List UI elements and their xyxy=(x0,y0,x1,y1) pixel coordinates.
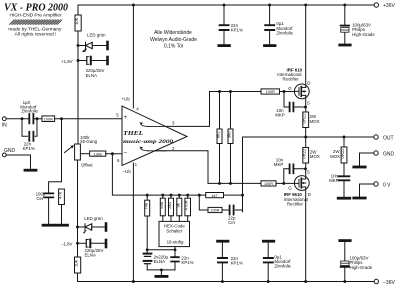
svg-text:1: 1 xyxy=(135,162,138,167)
wire 100R fb branch xyxy=(199,195,242,210)
wire op-amp out 2 to lower gate xyxy=(148,151,261,184)
svg-text:MOX: MOX xyxy=(310,154,320,159)
node hex ground tap xyxy=(160,268,163,271)
ground lower LED (vertical bar) xyxy=(105,224,108,231)
decorative hatch band xyxy=(10,20,63,25)
svg-text:D: D xyxy=(308,192,311,197)
svg-text:music-amp 2000: music-amp 2000 xyxy=(123,139,173,145)
node HEX bottom xyxy=(174,248,177,251)
node bias R2 bottom xyxy=(229,182,232,185)
wire feedback rail from OUT xyxy=(242,137,244,212)
node lower gate xyxy=(282,182,285,185)
svg-text:+: + xyxy=(124,115,128,121)
wire LED gruen upper branch xyxy=(78,45,107,47)
wire Q1 source down xyxy=(305,95,307,112)
svg-text:Welwyn Audio-Grade: Welwyn Audio-Grade xyxy=(150,37,197,43)
svg-text:D: D xyxy=(307,81,310,86)
svg-text:10k: 10k xyxy=(74,17,79,25)
node 22n bottom rail xyxy=(221,280,224,283)
capacitor 1u0 Mundorf Zinnfolie xyxy=(29,114,33,123)
node input cap right xyxy=(36,117,39,120)
wire input line to pin 5 xyxy=(6,118,122,120)
resistor 100R lower gate xyxy=(261,181,276,186)
svg-text:+Ub: +Ub xyxy=(122,96,131,101)
node 100u top rail xyxy=(343,4,346,7)
svg-text:−Ub: −Ub xyxy=(123,169,132,174)
wire upper gate segment xyxy=(280,91,295,93)
wire top +36V rail xyxy=(78,4,374,6)
svg-text:All rights reserved !: All rights reserved ! xyxy=(15,31,57,36)
terminal +36V xyxy=(374,3,378,7)
node bias R2 top xyxy=(229,90,232,93)
ground lower ELNA (vertical bar) xyxy=(105,240,108,247)
ground 22n top xyxy=(219,44,230,47)
svg-text:MKP: MKP xyxy=(275,113,285,118)
svg-text:130k: 130k xyxy=(94,152,102,156)
wire inverting input feedback bus xyxy=(112,154,199,195)
potentiometer wiper arrow xyxy=(65,146,74,153)
svg-text:Offset: Offset xyxy=(81,162,93,167)
node ELNA top xyxy=(146,248,149,251)
resistor gain R5 xyxy=(187,195,189,198)
wire OUT to Q2 source resistor xyxy=(305,137,307,148)
svg-text:2k4: 2k4 xyxy=(167,201,172,208)
capacitor 100u/63V Philips top xyxy=(344,5,346,43)
resistor gain R2 xyxy=(162,195,164,198)
svg-text:+1,8V: +1,8V xyxy=(61,59,73,64)
ground hex network xyxy=(156,275,167,278)
svg-text:GND: GND xyxy=(383,151,395,157)
node OUT zobel xyxy=(343,136,346,139)
wire upper 10n MKP xyxy=(284,92,306,108)
svg-text:100R: 100R xyxy=(264,182,273,186)
node bias R1 bottom xyxy=(218,182,221,185)
svg-text:0R22: 0R22 xyxy=(302,113,307,124)
node bus R188 xyxy=(186,194,189,197)
ground upper ELNA (vertical bar) xyxy=(106,57,109,64)
wire electrolytic +1.8V branch xyxy=(78,60,107,62)
wire bottom -36V rail xyxy=(78,281,374,283)
capacitor 0u1 Mundorf bottom xyxy=(263,240,273,243)
wire -Ub supply xyxy=(132,163,134,282)
svg-text:Rectifier: Rectifier xyxy=(287,201,304,206)
wire LED gruen lower branch xyxy=(78,226,106,228)
svg-text:0 V: 0 V xyxy=(383,182,391,188)
resistor 100R input xyxy=(42,116,55,122)
svg-text:0,1% Tol: 0,1% Tol xyxy=(164,44,183,50)
wire output 3 inside triangle xyxy=(148,125,167,127)
node bus R179 xyxy=(178,194,181,197)
ground zobel xyxy=(338,197,350,200)
svg-text:ELNA: ELNA xyxy=(154,259,166,264)
resistor 0R22 2W MOX zobel xyxy=(341,147,347,163)
svg-text:470R: 470R xyxy=(184,200,189,210)
node OUT upper xyxy=(304,136,307,139)
wire lower 10n MKP xyxy=(284,169,306,184)
capacitor 22p Cer xyxy=(230,206,234,215)
wire electrolytic -1.8V branch xyxy=(78,242,106,244)
svg-text:KP1%: KP1% xyxy=(181,260,193,265)
wire lower gate segment xyxy=(276,182,294,184)
transistor Q1 IRF 610 xyxy=(294,84,309,99)
svg-text:4k7: 4k7 xyxy=(212,194,218,198)
switch HEX-Code Schalter box xyxy=(159,221,190,246)
svg-text:IN: IN xyxy=(2,123,7,129)
resistor 10k upper xyxy=(75,15,81,31)
wire pot wiper to 130k xyxy=(80,153,89,155)
svg-text:MOX: MOX xyxy=(310,119,320,124)
ground 0V terminal xyxy=(354,197,365,200)
node -Ub rail xyxy=(132,280,135,283)
svg-text:54k: 54k xyxy=(159,201,164,209)
svg-text:OUT: OUT xyxy=(383,135,394,141)
node -1.8V cap junction xyxy=(76,242,79,245)
op-amp U1 triangle xyxy=(122,106,187,166)
node bus R148 xyxy=(146,194,149,197)
svg-text:Alle Widerstände: Alle Widerstände xyxy=(154,30,192,36)
svg-text:0R22: 0R22 xyxy=(340,148,345,159)
svg-text:−1,8V: −1,8V xyxy=(61,242,73,247)
capacitor 220u/25V ELNA upper xyxy=(86,57,88,65)
svg-text:KP1%: KP1% xyxy=(231,260,243,265)
svg-text:4: 4 xyxy=(136,107,139,112)
LED gruen upper xyxy=(86,42,93,48)
svg-text:Cer: Cer xyxy=(36,196,44,201)
capacitor 22n KP1% bottom xyxy=(218,240,228,243)
wire bias R2 xyxy=(230,92,232,184)
wire 0V terminal stub xyxy=(360,184,374,197)
svg-text:KP1%: KP1% xyxy=(23,146,35,151)
svg-text:−: − xyxy=(124,151,128,157)
svg-text:100R: 100R xyxy=(266,90,275,94)
node bus R163 xyxy=(161,194,164,197)
ground GND input xyxy=(25,169,36,172)
svg-text:G: G xyxy=(288,185,292,190)
resistor 10k lower xyxy=(75,257,81,273)
node +1.8V LED junction xyxy=(77,44,80,47)
svg-text:High-Grade: High-Grade xyxy=(352,32,375,37)
ground 0u1 top xyxy=(265,44,276,47)
svg-text:Rectifier: Rectifier xyxy=(283,77,300,82)
resistor 100R upper gate xyxy=(261,89,280,94)
wire Q1 source resistor to OUT xyxy=(305,128,307,138)
capacitor 10n MKP lower xyxy=(290,164,294,173)
wire +Ub supply xyxy=(132,5,134,108)
node 4k7 right xyxy=(241,194,244,197)
resistor 0R22 2W MOX Q2 source xyxy=(303,148,309,164)
svg-text:KP1%: KP1% xyxy=(231,27,243,32)
svg-text:Zinnfolie: Zinnfolie xyxy=(276,30,293,35)
svg-text:ELNA: ELNA xyxy=(86,73,98,78)
wire Q2 source up xyxy=(305,163,307,179)
svg-text:3k0: 3k0 xyxy=(227,131,232,138)
svg-text:100R: 100R xyxy=(44,117,53,121)
terminal -36V xyxy=(374,279,378,283)
ground upper LED (vertical bar) xyxy=(106,42,109,49)
svg-text:+36V: +36V xyxy=(383,3,395,9)
svg-text:MKP: MKP xyxy=(274,162,284,167)
svg-text:THEL: THEL xyxy=(123,130,143,137)
resistor 0R22 2W MOX Q1 source xyxy=(303,112,309,128)
svg-text:−36V: −36V xyxy=(383,280,395,286)
wire 130k to pin 6 xyxy=(106,153,122,155)
node upper source 10n xyxy=(304,106,307,109)
resistor bias R1 xyxy=(217,129,222,144)
LED gruen lower xyxy=(85,224,92,230)
svg-text:LED grün: LED grün xyxy=(84,216,103,221)
svg-text:100R: 100R xyxy=(210,209,219,213)
wire hex caps join xyxy=(147,269,175,271)
node 0u1 bottom rail xyxy=(267,280,270,283)
wire hex bottom bus xyxy=(147,249,175,251)
svg-text:8k2: 8k2 xyxy=(216,131,221,138)
svg-text:MKP: MKP xyxy=(329,178,339,183)
resistor gain R3 xyxy=(170,195,172,198)
node bias R1 top xyxy=(218,90,221,93)
terminal OUT xyxy=(374,135,378,139)
svg-text:5: 5 xyxy=(116,112,119,117)
node +Ub rail xyxy=(132,4,135,7)
wire 4k7 ends xyxy=(199,194,242,196)
wire HEX box bottom pin xyxy=(174,247,176,250)
capacitor 22n KP1% top xyxy=(223,5,225,44)
ground GND terminal xyxy=(354,166,365,169)
svg-text:High-Grade: High-Grade xyxy=(350,265,373,270)
transistor Q2 IRF 9610 xyxy=(294,176,309,191)
node Q2 drain rail xyxy=(304,280,307,283)
node +1.8V cap junction xyxy=(77,59,80,62)
svg-text:10k: 10k xyxy=(74,259,79,267)
capacitor 100p Cer xyxy=(44,193,53,197)
node input cap left xyxy=(21,117,24,120)
svg-text:25-Gang: 25-Gang xyxy=(80,139,98,144)
wire bias R1 xyxy=(219,92,221,184)
svg-text:MOX: MOX xyxy=(330,154,340,159)
resistor 100R feedback xyxy=(208,207,222,212)
capacitor 10n MKP upper xyxy=(290,103,294,112)
wire zobel xyxy=(343,137,345,197)
node bus R171 xyxy=(170,194,173,197)
svg-text:74k: 74k xyxy=(143,202,148,210)
capacitor 2x220u ELNA stack xyxy=(144,253,152,255)
resistor gain R1 xyxy=(146,195,148,200)
svg-text:Cer: Cer xyxy=(228,220,236,225)
capacitor 10n MKP zobel xyxy=(339,176,350,180)
resistor 4k7 xyxy=(206,193,224,198)
svg-text:Zinnfolie: Zinnfolie xyxy=(274,264,291,269)
wire GND left stub xyxy=(6,155,30,169)
node feedback bus left xyxy=(198,194,201,197)
wire Q2 drain to -36V xyxy=(305,187,307,282)
wire op-amp out 3 to upper gate xyxy=(148,92,261,127)
wire 100p to ground xyxy=(48,199,50,224)
node 0u1 top rail xyxy=(268,4,271,7)
wire left positive bias rail xyxy=(77,5,79,144)
terminal GND left xyxy=(2,153,6,157)
node upper gate xyxy=(283,90,286,93)
resistor bias R2 xyxy=(228,129,233,144)
wire left negative bias rail xyxy=(77,160,79,282)
svg-text:16-stufig: 16-stufig xyxy=(167,239,184,244)
terminal IN xyxy=(2,117,6,121)
capacitor 22n KP1% hex xyxy=(174,250,176,270)
wire parallel loop xyxy=(22,119,37,137)
ground 100p xyxy=(43,224,54,227)
node lower source 10n xyxy=(304,167,307,170)
svg-text:G: G xyxy=(288,86,292,91)
resistor 130k xyxy=(90,151,106,156)
svg-text:3: 3 xyxy=(172,121,175,126)
ground 100u top xyxy=(340,44,350,47)
resistor gain R4 xyxy=(178,195,180,198)
node Q1 drain rail xyxy=(304,4,307,7)
wire Q1 drain to +36V xyxy=(305,5,307,87)
capacitor 22n KP1% input xyxy=(29,132,33,141)
op-amp output 3 hook xyxy=(141,124,149,127)
terminal GND right xyxy=(374,151,378,155)
node inverting input xyxy=(111,152,114,155)
terminal 0V xyxy=(374,182,378,186)
svg-text:S: S xyxy=(307,100,310,105)
capacitor 220u/25V ELNA lower xyxy=(85,240,87,248)
svg-text:47k: 47k xyxy=(58,191,63,199)
svg-text:Schalter: Schalter xyxy=(166,228,183,233)
potentiometer Offset 100k body xyxy=(75,144,81,160)
node 22n top rail xyxy=(223,4,226,7)
svg-text:HIGH-END Pre Amplifier: HIGH-END Pre Amplifier xyxy=(10,13,63,18)
resistor 47k xyxy=(59,189,65,205)
node after 100R xyxy=(60,117,63,120)
wire GND terminal stub xyxy=(360,153,374,166)
svg-text:6: 6 xyxy=(117,158,120,163)
node 100u bottom rail xyxy=(343,280,346,283)
capacitor 0u1 Mundorf top xyxy=(269,5,271,44)
svg-text:LED grün: LED grün xyxy=(87,32,106,37)
capacitor 100u/63V Philips bottom xyxy=(340,239,350,242)
svg-text:0R22: 0R22 xyxy=(302,148,307,159)
op-amp output 2 hook xyxy=(141,148,149,151)
wire OUT line xyxy=(243,136,374,138)
wire bias return tap xyxy=(49,119,62,193)
svg-text:GND: GND xyxy=(4,148,16,154)
ground 47k xyxy=(56,224,67,227)
svg-text:ELNA: ELNA xyxy=(85,252,97,257)
wire output 2 inside triangle xyxy=(148,150,167,152)
svg-text:S: S xyxy=(307,170,310,175)
node -1.8V LED junction xyxy=(76,226,79,229)
svg-text:Zinnfolie: Zinnfolie xyxy=(21,109,38,114)
